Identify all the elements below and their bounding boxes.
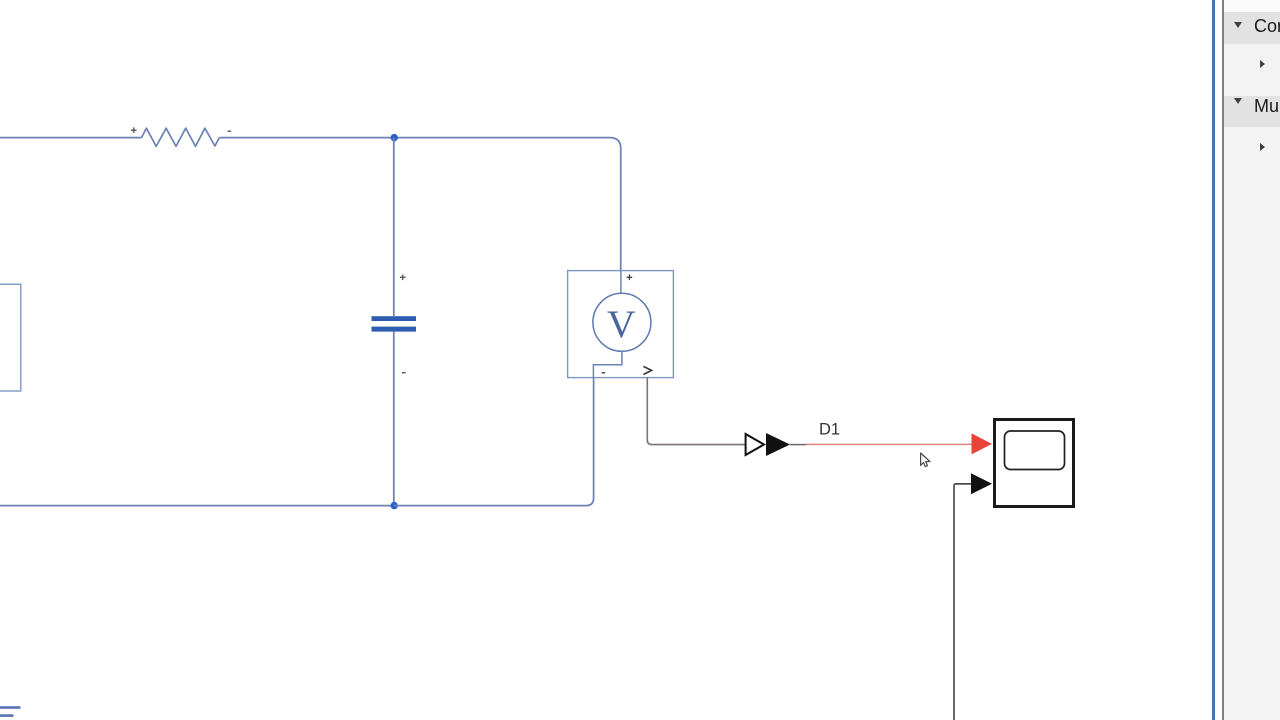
wire capacitor to bottom junction bbox=[393, 332, 395, 506]
library panel background bbox=[1224, 0, 1280, 720]
junction node top bbox=[391, 134, 398, 141]
wire junction down to capacitor C1 bbox=[393, 138, 395, 316]
panel row Continuous collapse triangle bbox=[1234, 22, 1242, 28]
mouse cursor bbox=[921, 453, 930, 467]
resistor R1 zigzag bbox=[142, 128, 220, 146]
red input arrowhead at scope port 1 bbox=[972, 433, 993, 454]
voltmeter U1 output port chevron bbox=[643, 366, 651, 374]
svg-text:V: V bbox=[607, 302, 636, 346]
panel subrow expand triangle 1 bbox=[1260, 60, 1265, 68]
diode D1 solid arrowhead bbox=[766, 433, 790, 456]
resistor R1 minus label bbox=[228, 130, 232, 132]
bottom wire from left edge through junction bbox=[0, 505, 394, 507]
wire from left edge to resistor R1 bbox=[0, 137, 142, 139]
scope block body bbox=[995, 420, 1074, 507]
junction node bottom bbox=[391, 502, 398, 509]
panel row Continuous band bbox=[1224, 12, 1280, 44]
canvas edge blue accent bbox=[1212, 0, 1215, 720]
scope block screen bbox=[1005, 431, 1065, 470]
panel row Multimeter text bbox=[1254, 96, 1280, 117]
voltmeter U1 minus label bbox=[602, 372, 606, 374]
partial block bottom-left upper edge bbox=[0, 706, 21, 709]
capacitor C1 plates bbox=[372, 316, 417, 331]
voltmeter U1 circle bbox=[593, 293, 651, 351]
voltmeter U1 body bbox=[568, 271, 674, 378]
panel row Continuous text bbox=[1254, 16, 1280, 37]
resistor R1 plus label bbox=[131, 127, 137, 133]
partial block at left edge bbox=[0, 284, 21, 391]
partial block bottom-left lower edge bbox=[0, 714, 14, 717]
wire bottom junction to voltmeter minus port bbox=[394, 378, 594, 506]
black input arrowhead at scope port 2 bbox=[971, 473, 992, 494]
svg-text:D1: D1 bbox=[819, 421, 840, 439]
diode D1 outline arrowhead bbox=[746, 434, 764, 455]
capacitor C1 minus label bbox=[402, 372, 406, 374]
red signal wire to scope bbox=[806, 443, 972, 445]
panel subrow expand triangle 2 bbox=[1260, 143, 1265, 151]
grey stub after diode bbox=[790, 444, 806, 446]
voltmeter U1 internal wire from circle to minus port bbox=[593, 351, 622, 377]
capacitor C1 plus label bbox=[400, 275, 406, 281]
voltmeter U1 plus label bbox=[627, 275, 633, 281]
panel row Multimeter collapse triangle bbox=[1234, 98, 1242, 104]
panel top white strip bbox=[1224, 0, 1280, 12]
panel row Multimeter band bbox=[1224, 96, 1280, 128]
panel divider line bbox=[1222, 0, 1224, 720]
wire from bottom edge to scope port 2 bbox=[954, 484, 971, 720]
wire from resistor to top-right corner into voltmeter bbox=[219, 138, 620, 271]
voltmeter U1 internal wire from plus port bbox=[620, 271, 622, 293]
wire voltmeter output down and right to diode D1 bbox=[647, 378, 745, 445]
